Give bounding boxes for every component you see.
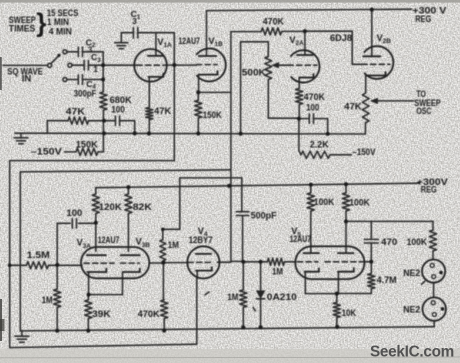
svg-text:10K: 10K — [342, 308, 357, 318]
svg-text:12AU7: 12AU7 — [178, 36, 200, 46]
svg-text:1.5M: 1.5M — [27, 250, 50, 260]
svg-text:680K: 680K — [110, 95, 133, 105]
svg-text:1M: 1M — [42, 295, 53, 305]
svg-text:39K: 39K — [92, 309, 111, 319]
svg-text:500pF: 500pF — [251, 210, 277, 220]
svg-text:1M: 1M — [227, 292, 238, 302]
svg-text:3: 3 — [132, 17, 137, 26]
svg-text:12BY7: 12BY7 — [189, 235, 213, 245]
svg-text:SeekIC.com: SeekIC.com — [370, 344, 454, 361]
svg-text:500K: 500K — [242, 67, 267, 77]
svg-text:NE2: NE2 — [403, 268, 420, 278]
svg-text:470K: 470K — [138, 309, 161, 319]
svg-text:47K: 47K — [154, 106, 172, 116]
svg-text:1M: 1M — [168, 240, 179, 250]
svg-text:REG: REG — [421, 185, 437, 195]
svg-text:OSC: OSC — [416, 106, 431, 116]
svg-text:100K: 100K — [349, 198, 370, 208]
svg-text:NE2: NE2 — [403, 304, 420, 314]
svg-text:100K: 100K — [407, 237, 428, 247]
svg-text:82K: 82K — [133, 202, 153, 212]
svg-text:150K: 150K — [76, 140, 99, 150]
svg-text:}: } — [36, 8, 46, 38]
svg-text:100: 100 — [111, 104, 125, 114]
svg-text:4.7M: 4.7M — [377, 275, 397, 285]
svg-text:470K: 470K — [263, 17, 284, 27]
svg-text:47K: 47K — [344, 101, 362, 111]
svg-text:1M: 1M — [272, 267, 283, 277]
svg-text:150K: 150K — [203, 110, 222, 120]
svg-text:470: 470 — [381, 237, 397, 247]
svg-text:4 MIN: 4 MIN — [49, 25, 72, 36]
svg-text:100: 100 — [66, 208, 82, 218]
svg-text:1: 1 — [93, 65, 98, 74]
svg-text:–150V: –150V — [31, 147, 62, 157]
svg-text:0A210: 0A210 — [267, 292, 297, 302]
svg-text:REG: REG — [415, 14, 431, 24]
svg-text:12AU7: 12AU7 — [98, 235, 120, 245]
svg-text:2.2K: 2.2K — [310, 139, 329, 149]
svg-text:47K: 47K — [66, 106, 86, 116]
svg-text:120K: 120K — [99, 202, 123, 212]
svg-text:IN: IN — [22, 73, 32, 83]
svg-text:–150V: –150V — [352, 147, 375, 157]
svg-text:100K: 100K — [314, 197, 335, 207]
svg-text:6DJ8: 6DJ8 — [330, 33, 352, 43]
svg-text:100: 100 — [306, 102, 319, 112]
svg-text:TIMES: TIMES — [9, 23, 36, 34]
svg-text:470K: 470K — [304, 92, 325, 102]
